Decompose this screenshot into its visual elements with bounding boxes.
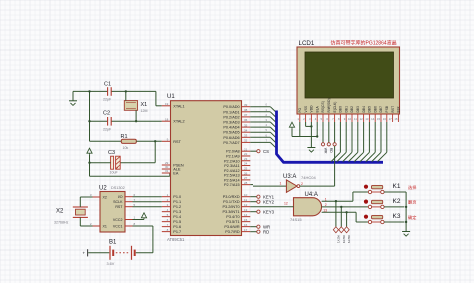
svg-text:BLK: BLK	[397, 105, 401, 112]
mcu U1 right pins	[223, 103, 251, 234]
svg-text:DB3: DB3	[356, 106, 360, 113]
svg-text:R1: R1	[121, 134, 128, 140]
wire	[250, 185, 286, 187]
wire	[80, 217, 92, 226]
svg-text:XTAL1: XTAL1	[173, 104, 184, 108]
svg-text:P2.6/A14: P2.6/A14	[224, 178, 240, 182]
svg-text:P1.7: P1.7	[173, 230, 181, 234]
label C1	[104, 82, 111, 88]
node KEY1	[250, 194, 274, 199]
svg-text:KEY2: KEY2	[263, 199, 275, 204]
svg-text:P1.5: P1.5	[173, 220, 181, 224]
node KEY2	[250, 199, 274, 204]
wire	[322, 211, 369, 222]
svg-text:13: 13	[365, 117, 369, 121]
svg-text:BLA: BLA	[315, 105, 319, 112]
svg-text:AT89C51: AT89C51	[167, 237, 185, 242]
svg-text:P2.3/A11: P2.3/A11	[224, 164, 239, 168]
node RD term	[327, 122, 333, 153]
svg-text:U3:A: U3:A	[283, 174, 296, 180]
svg-text:P3.0/RXD: P3.0/RXD	[223, 195, 240, 199]
svg-text:21: 21	[244, 147, 248, 151]
svg-text:P1.2: P1.2	[173, 205, 181, 209]
svg-text:CS: CS	[263, 149, 269, 154]
svg-text:RD: RD	[329, 148, 333, 153]
svg-text:SCLK: SCLK	[113, 200, 123, 204]
svg-text:1: 1	[280, 182, 282, 186]
resistor R1	[121, 139, 136, 143]
svg-text:3.6V: 3.6V	[107, 262, 115, 266]
svg-text:12: 12	[360, 117, 364, 121]
svg-text:DB2: DB2	[350, 106, 354, 113]
svg-text:22: 22	[244, 152, 248, 156]
svg-text:RST: RST	[173, 140, 181, 144]
svg-text:P0.6/AD6: P0.6/AD6	[223, 136, 239, 140]
svg-text:P1.0: P1.0	[173, 195, 181, 199]
wire	[90, 155, 170, 177]
svg-text:DB1: DB1	[344, 106, 348, 113]
svg-text:RS(CS): RS(CS)	[321, 101, 325, 112]
bus	[277, 111, 384, 163]
svg-text:FG: FG	[298, 107, 302, 112]
wire	[90, 140, 122, 142]
value 74HC04	[301, 175, 316, 180]
value 74S15	[290, 217, 302, 222]
wire	[299, 122, 301, 137]
svg-text:DB0: DB0	[339, 106, 343, 113]
svg-text:74S15: 74S15	[290, 217, 302, 222]
svg-text:23: 23	[244, 157, 248, 161]
capacitor C3	[111, 156, 121, 169]
svg-text:27: 27	[244, 176, 248, 180]
value 12M	[141, 109, 148, 113]
svg-text:P2.0/A8: P2.0/A8	[226, 150, 240, 154]
pin 2	[301, 182, 303, 186]
op-amp U3:A inverter	[286, 180, 299, 193]
svg-text:DS1302: DS1302	[111, 186, 125, 190]
pin 2	[325, 203, 327, 207]
svg-text:确定: 确定	[408, 214, 416, 221]
svg-text:10k: 10k	[123, 146, 129, 150]
svg-text:P0.4/AD4: P0.4/AD4	[223, 126, 239, 130]
svg-text:17: 17	[389, 117, 393, 121]
svg-text:P3.6/WR: P3.6/WR	[224, 225, 239, 229]
wire	[306, 122, 313, 128]
svg-text:P3.4/T0: P3.4/T0	[226, 215, 239, 219]
wire	[133, 226, 153, 253]
svg-text:K1: K1	[393, 183, 401, 190]
svg-text:P1.1: P1.1	[173, 200, 181, 204]
pin 13	[323, 209, 327, 213]
label LCD1	[299, 40, 315, 47]
wires LCD data to bus	[331, 122, 387, 162]
svg-text:18: 18	[394, 117, 398, 121]
svg-text:KEY3: KEY3	[347, 236, 351, 244]
svg-text:P3.1/TXD: P3.1/TXD	[223, 200, 240, 204]
svg-text:RST: RST	[391, 106, 395, 113]
svg-text:仿真可带字库的PG12864液晶: 仿真可带字库的PG12864液晶	[331, 40, 397, 47]
value 22pF	[103, 127, 112, 131]
value AT89C51	[167, 237, 185, 242]
svg-text:B1: B1	[109, 240, 117, 246]
svg-text:P2.7/A15: P2.7/A15	[224, 183, 240, 187]
power +V	[87, 148, 92, 155]
svg-text:24: 24	[244, 162, 248, 166]
pin 1	[280, 182, 282, 186]
svg-text:32768Hz: 32768Hz	[54, 221, 69, 225]
svg-text:RST: RST	[115, 205, 123, 209]
svg-text:+: +	[83, 250, 86, 255]
svg-text:C3: C3	[108, 150, 115, 156]
svg-text:DB5: DB5	[368, 106, 372, 113]
svg-text:28: 28	[244, 181, 248, 185]
mcu U1 left pins	[162, 102, 185, 234]
wire	[111, 91, 162, 105]
value 10uF	[110, 171, 119, 175]
svg-text:P3.5/T1: P3.5/T1	[226, 220, 239, 224]
and-gate U4:A	[294, 198, 322, 216]
capacitor C1	[108, 87, 112, 96]
svg-text:74HC04: 74HC04	[301, 175, 316, 180]
label R1	[121, 134, 128, 140]
svg-text:38: 38	[244, 108, 248, 112]
svg-text:31: 31	[165, 169, 169, 173]
svg-text:P1.3: P1.3	[173, 210, 181, 214]
svg-text:P2.1/A9: P2.1/A9	[226, 154, 240, 158]
svg-text:选择: 选择	[408, 184, 417, 191]
svg-text:LCD1: LCD1	[299, 40, 315, 47]
ground	[307, 148, 315, 153]
svg-text:11: 11	[244, 198, 247, 202]
svg-text:33: 33	[244, 134, 248, 138]
svg-text:KEY3: KEY3	[263, 209, 275, 214]
annotation red	[331, 40, 397, 47]
svg-text:P1.6: P1.6	[173, 225, 181, 229]
button K2	[364, 198, 416, 208]
node: gnd rail	[88, 90, 90, 141]
svg-text:19: 19	[165, 102, 169, 106]
svg-text:P0.3/AD3: P0.3/AD3	[223, 121, 239, 125]
svg-text:VCC2: VCC2	[113, 218, 123, 222]
svg-text:34: 34	[244, 128, 248, 132]
wire	[300, 146, 335, 186]
svg-text:15: 15	[377, 117, 381, 121]
node E term	[333, 122, 336, 146]
svg-text:P2.2/A10: P2.2/A10	[224, 159, 240, 163]
svg-text:DB4: DB4	[362, 106, 366, 113]
value DS1302	[111, 186, 125, 190]
wire	[136, 140, 162, 142]
wire	[384, 221, 404, 223]
wire	[250, 206, 293, 208]
svg-text:P0.5/AD5: P0.5/AD5	[223, 131, 239, 135]
value 3.6V	[107, 262, 115, 266]
svg-text:E(CLK): E(CLK)	[333, 102, 337, 113]
wire	[80, 197, 92, 207]
svg-text:14: 14	[371, 117, 375, 121]
svg-text:26: 26	[244, 171, 248, 175]
svg-text:18: 18	[165, 117, 169, 121]
lcd pins	[297, 98, 400, 122]
svg-text:P0.7/AD7: P0.7/AD7	[223, 141, 239, 145]
ground	[402, 229, 410, 237]
svg-text:14: 14	[244, 213, 248, 217]
wire	[322, 206, 369, 208]
svg-text:25: 25	[244, 167, 248, 171]
pin 1	[325, 198, 327, 202]
wires P0 to bus	[250, 103, 275, 148]
svg-text:P0.1/AD1: P0.1/AD1	[223, 110, 239, 114]
wire	[316, 122, 318, 137]
value 10k	[123, 146, 129, 150]
svg-text:RD: RD	[263, 229, 269, 234]
svg-text:P3.7/RD: P3.7/RD	[225, 230, 240, 234]
svg-text:15: 15	[244, 218, 248, 222]
svg-text:10uF: 10uF	[110, 171, 119, 175]
crystal X1	[124, 101, 137, 111]
node WR term	[321, 122, 327, 154]
svg-text:P0.0/AD0: P0.0/AD0	[223, 105, 239, 109]
svg-text:16: 16	[244, 223, 248, 227]
svg-text:11: 11	[354, 117, 357, 121]
rtc U2 pins	[90, 193, 136, 229]
wire	[384, 192, 407, 229]
svg-text:VCC1: VCC1	[113, 225, 123, 229]
rtc U2 body	[100, 192, 125, 233]
svg-text:X1: X1	[103, 225, 107, 229]
wire	[135, 110, 137, 122]
svg-text:R/W(SID): R/W(SID)	[327, 98, 331, 112]
wire	[125, 90, 127, 100]
svg-text:K2: K2	[393, 198, 401, 205]
svg-text:VDD: VDD	[310, 105, 314, 113]
power +V	[289, 122, 294, 129]
label U3:A	[283, 174, 296, 180]
wire	[120, 141, 155, 162]
svg-text:P3.3/INT1: P3.3/INT1	[223, 210, 240, 214]
svg-text:P0.2/AD2: P0.2/AD2	[223, 115, 239, 119]
power +V	[133, 213, 147, 220]
node KEY3	[250, 209, 274, 214]
label X1	[141, 102, 148, 108]
svg-text:K3: K3	[393, 213, 401, 220]
svg-text:P2.5/A13: P2.5/A13	[224, 174, 240, 178]
mcu U1 body	[171, 101, 242, 236]
svg-text:WR: WR	[323, 148, 327, 154]
label U2	[99, 186, 107, 192]
svg-text:XTAL2: XTAL2	[173, 120, 184, 124]
crystal X2	[73, 207, 88, 217]
wire	[88, 162, 110, 164]
svg-text:35: 35	[244, 123, 248, 127]
wire	[73, 90, 108, 92]
svg-text:DB7: DB7	[379, 106, 383, 113]
svg-text:12: 12	[244, 203, 248, 207]
node WR	[250, 224, 270, 229]
svg-text:36: 36	[244, 118, 248, 122]
svg-text:17: 17	[244, 228, 248, 232]
svg-text:10: 10	[348, 117, 352, 121]
svg-text:10: 10	[244, 193, 248, 197]
node CS	[250, 149, 269, 154]
lcd LCD1 body	[297, 47, 400, 114]
svg-text:22pF: 22pF	[103, 98, 112, 102]
wire	[133, 206, 162, 208]
svg-text:37: 37	[244, 113, 248, 117]
button K3	[364, 213, 416, 224]
label B1	[109, 240, 117, 246]
label C2	[103, 111, 110, 117]
button K1	[364, 183, 417, 194]
svg-text:X2: X2	[103, 196, 107, 200]
nodes KEY1 KEY2 KEY3	[333, 201, 351, 243]
svg-text:12M: 12M	[141, 109, 148, 113]
svg-text:39: 39	[244, 103, 248, 107]
svg-text:12: 12	[284, 202, 288, 206]
svg-text:P2.4/A12: P2.4/A12	[224, 169, 240, 173]
svg-text:翻页: 翻页	[408, 199, 416, 206]
svg-text:X2: X2	[56, 209, 64, 215]
svg-text:P1.4: P1.4	[173, 215, 181, 219]
capacitor C2	[108, 117, 112, 126]
label U4:A	[305, 192, 318, 198]
svg-text:PSB: PSB	[385, 105, 389, 112]
label C3	[108, 150, 115, 156]
svg-text:EA: EA	[173, 172, 179, 176]
svg-text:I/O: I/O	[118, 195, 123, 199]
wire	[111, 120, 162, 122]
ground	[69, 91, 77, 105]
svg-text:C2: C2	[103, 111, 110, 117]
wire	[292, 129, 318, 138]
svg-text:KEY1: KEY1	[337, 236, 341, 244]
pin 12	[284, 202, 288, 206]
wire	[133, 201, 162, 203]
label X2	[56, 209, 64, 215]
svg-text:U4:A: U4:A	[305, 192, 318, 198]
svg-text:U2: U2	[99, 186, 107, 192]
svg-text:VSS: VSS	[304, 105, 308, 112]
battery B1	[83, 246, 153, 260]
wire	[310, 122, 312, 148]
wire	[133, 196, 162, 198]
wire	[384, 206, 404, 208]
wire	[322, 192, 369, 202]
label U1	[167, 94, 175, 100]
svg-text:DB6: DB6	[373, 106, 377, 113]
svg-text:KEY2: KEY2	[342, 236, 346, 244]
value 32768Hz	[54, 221, 69, 225]
svg-text:32: 32	[244, 139, 248, 143]
svg-text:X1: X1	[141, 102, 148, 108]
svg-text:16: 16	[383, 117, 387, 121]
svg-text:2: 2	[301, 182, 303, 186]
svg-text:U1: U1	[167, 94, 175, 100]
svg-text:P3.2/INT0: P3.2/INT0	[223, 205, 240, 209]
wire	[90, 120, 108, 122]
node RD	[250, 229, 269, 234]
svg-text:C1: C1	[104, 82, 111, 88]
value 22pF	[103, 98, 112, 102]
lcd screen	[305, 52, 394, 98]
svg-text:22pF: 22pF	[103, 127, 112, 131]
svg-text:13: 13	[244, 208, 248, 212]
